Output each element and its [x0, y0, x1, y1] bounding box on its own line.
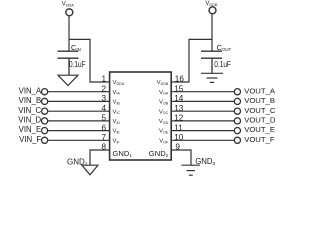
svg-text:VIN_D: VIN_D: [18, 116, 41, 125]
svg-text:0.1uF: 0.1uF: [69, 59, 86, 69]
earth ground GND3: [182, 165, 201, 175]
output terminal VOUT_F: [234, 137, 240, 143]
svg-text:GND2: GND2: [67, 158, 88, 168]
input terminal VIN_E: [42, 128, 48, 134]
svg-text:14: 14: [174, 94, 184, 103]
wire pin 10 to VOUT_F: [171, 139, 234, 141]
svg-text:VIN_B: VIN_B: [19, 96, 42, 105]
wire VDDA terminal to capacitor CIN: [68, 16, 70, 51]
input terminal VIN_B: [42, 98, 48, 104]
svg-text:10: 10: [174, 133, 184, 142]
ground symbol under CIN (open triangle): [58, 75, 78, 85]
input terminal VIN_D: [42, 118, 48, 124]
svg-text:2: 2: [101, 84, 106, 93]
wire VIN_C to pin 4: [48, 110, 110, 112]
wire VDDA branch to pin 1: [69, 39, 110, 82]
input terminal VIN_A: [42, 89, 48, 95]
svg-text:VOUT_C: VOUT_C: [244, 106, 276, 115]
power terminal VDDA: [66, 9, 73, 16]
wire VIN_A to pin 2: [48, 91, 110, 93]
svg-text:VOUT_A: VOUT_A: [244, 86, 276, 95]
svg-text:4: 4: [101, 104, 106, 113]
wire pin 11 to VOUT_E: [171, 130, 234, 132]
svg-text:13: 13: [174, 104, 184, 113]
wire VIN_D to pin 5: [48, 120, 110, 122]
svg-text:VOUT_B: VOUT_B: [244, 96, 275, 105]
svg-text:7: 7: [101, 133, 106, 142]
wire VDDB terminal to capacitor COUT: [211, 14, 213, 51]
wire pin 15 to VOUT_A: [171, 91, 234, 93]
output terminal VOUT_E: [234, 128, 240, 134]
svg-text:6: 6: [101, 123, 106, 132]
svg-text:5: 5: [101, 114, 106, 123]
svg-text:VIN_A: VIN_A: [19, 86, 42, 95]
input terminal VIN_F: [42, 137, 48, 143]
power terminal VDDB: [209, 7, 216, 14]
wire pin 12 to VOUT_D: [171, 120, 234, 122]
svg-text:VOUT_F: VOUT_F: [244, 135, 275, 144]
svg-text:1: 1: [101, 75, 106, 84]
output terminal VOUT_A: [234, 89, 240, 95]
input terminal VIN_C: [42, 108, 48, 114]
output terminal VOUT_C: [234, 108, 240, 114]
wire VDDB branch to pin 16: [171, 39, 212, 82]
earth ground under COUT: [201, 73, 223, 82]
wire pin 9 to ground: [171, 150, 191, 165]
wire VIN_F to pin 7: [48, 139, 110, 141]
svg-text:0.1uF: 0.1uF: [214, 59, 231, 69]
wire pin 13 to VOUT_C: [171, 110, 234, 112]
svg-text:VIN_C: VIN_C: [18, 106, 41, 115]
wire pin 14 to VOUT_B: [171, 100, 234, 102]
capacitor COUT: [201, 51, 222, 73]
wire VIN_E to pin 6: [48, 130, 110, 132]
svg-text:12: 12: [174, 114, 184, 123]
svg-text:15: 15: [174, 84, 184, 93]
ground symbol GND2 (open triangle): [82, 165, 98, 175]
svg-text:GND3: GND3: [195, 157, 215, 167]
IC body U1 (16-pin hex buffer): [110, 72, 172, 160]
output terminal VOUT_D: [234, 118, 240, 124]
svg-text:VIN_F: VIN_F: [19, 135, 41, 144]
svg-text:16: 16: [175, 75, 185, 84]
svg-text:9: 9: [175, 143, 180, 152]
wire pin 8 to ground: [90, 150, 110, 165]
output terminal VOUT_B: [234, 98, 240, 104]
svg-text:VIN_E: VIN_E: [19, 125, 42, 134]
svg-text:8: 8: [101, 143, 106, 152]
capacitor CIN: [58, 51, 79, 75]
svg-text:3: 3: [101, 94, 106, 103]
wire VIN_B to pin 3: [48, 100, 110, 102]
svg-text:11: 11: [174, 123, 183, 132]
svg-text:VOUT_D: VOUT_D: [244, 116, 276, 125]
svg-text:VOUT_E: VOUT_E: [244, 125, 275, 134]
